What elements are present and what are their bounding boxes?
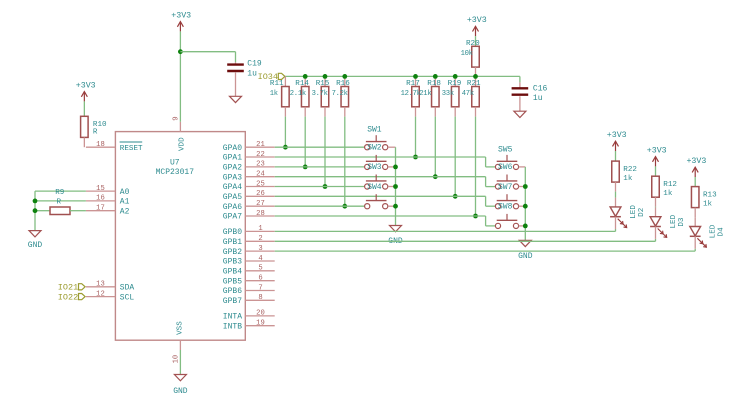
svg-text:28: 28 [256, 210, 265, 218]
svg-text:7: 7 [258, 284, 262, 292]
power +3V3 (VDD) [171, 12, 191, 32]
svg-text:A2: A2 [120, 207, 130, 216]
ground (VSS) [173, 375, 188, 397]
svg-text:25: 25 [256, 180, 265, 188]
wire A0 [35, 190, 86, 192]
svg-text:15: 15 [96, 185, 105, 193]
wire GPB0 row [275, 229, 616, 231]
wire R18 to row [434, 107, 436, 177]
svg-text:33k: 33k [442, 90, 454, 98]
resistor R9 [35, 189, 86, 215]
svg-text:R9: R9 [55, 189, 65, 197]
wire GPA7 row to right switch [275, 216, 496, 226]
svg-text:+3V3: +3V3 [647, 147, 667, 156]
pin 8 GPB7 [223, 294, 275, 306]
svg-text:GPB4: GPB4 [223, 268, 242, 277]
junction A1 [33, 199, 38, 204]
capacitor C19 [227, 59, 262, 96]
svg-text:INTB: INTB [223, 322, 242, 331]
wire GPA4 row [275, 186, 365, 188]
junction row R19 [453, 194, 458, 199]
svg-text:GPB7: GPB7 [223, 297, 242, 306]
junction row R21 [473, 214, 478, 219]
LED D3 [650, 214, 686, 237]
svg-text:RESET: RESET [120, 145, 143, 153]
resistor R18 21k [419, 76, 441, 106]
resistor R13 1k [691, 187, 717, 209]
wire +3V3 to R20 [475, 36, 477, 46]
svg-text:21k: 21k [419, 90, 431, 98]
svg-text:16: 16 [96, 195, 105, 203]
svg-text:GPA1: GPA1 [223, 154, 242, 163]
svg-text:GPA7: GPA7 [223, 213, 242, 222]
wire GPA5 row to right switch [275, 196, 496, 206]
ground (C19) [230, 96, 242, 102]
switch SW6 [495, 163, 525, 189]
svg-text:+3V3: +3V3 [607, 131, 627, 140]
pin 10 VSS [172, 321, 184, 364]
svg-text:24: 24 [256, 171, 265, 179]
svg-text:20: 20 [256, 310, 265, 318]
svg-text:2.1k: 2.1k [290, 90, 306, 98]
svg-text:1k: 1k [623, 175, 633, 183]
LED D4 [690, 224, 726, 247]
svg-text:9: 9 [172, 116, 180, 120]
wire +3V3 to R10 [83, 101, 85, 116]
junction VDD/C19 [178, 49, 183, 54]
svg-text:R: R [57, 198, 62, 206]
svg-text:GPB1: GPB1 [223, 238, 242, 247]
wire right switch outputs [524, 167, 526, 240]
svg-text:13: 13 [96, 281, 105, 289]
junction row R17 [413, 155, 418, 160]
svg-text:1: 1 [258, 225, 262, 233]
pin 9 VDD [172, 116, 186, 151]
switch SW7 [495, 183, 525, 209]
wire R22 to D2 [615, 182, 617, 207]
wire GPB2 row [275, 249, 696, 251]
svg-text:GPA2: GPA2 [223, 164, 242, 173]
wire VDD vertical [179, 31, 181, 121]
LED D2 [610, 205, 646, 228]
svg-text:R12: R12 [663, 181, 677, 189]
pin 21 GPA0 [223, 141, 275, 153]
wire address common vertical [34, 191, 36, 231]
svg-text:12.7k: 12.7k [401, 90, 421, 98]
svg-text:5: 5 [258, 265, 262, 273]
wire R16 to row [344, 107, 346, 206]
wire GPA1 row to right switch [275, 157, 496, 167]
pin 17 A2 [86, 205, 130, 217]
global label IO22 (SCL) [58, 292, 85, 302]
junction SW8 out [523, 224, 528, 229]
wire to C19 [180, 52, 235, 63]
resistor R10 [81, 116, 107, 137]
resistor R16 7.2k [332, 76, 351, 106]
svg-text:D2: D2 [638, 207, 646, 217]
svg-text:10: 10 [172, 355, 180, 364]
svg-text:C16: C16 [533, 84, 548, 93]
pin 3 GPB2 [223, 245, 275, 257]
pin 12 SCL [86, 290, 135, 302]
svg-text:R19: R19 [448, 80, 462, 88]
pin 1 GPB0 [223, 225, 275, 237]
power +3V3 (R20) [467, 16, 487, 36]
switch SW2 [365, 144, 396, 170]
svg-text:SW4: SW4 [367, 183, 382, 192]
switch SW3 [365, 163, 396, 189]
svg-text:A1: A1 [120, 198, 130, 207]
resistor R19 33k [442, 76, 462, 106]
svg-text:26: 26 [256, 190, 265, 198]
svg-text:LED: LED [630, 205, 638, 219]
svg-text:22: 22 [256, 151, 265, 159]
pin 20 INTA [223, 310, 275, 322]
wire R13 to D4 [694, 208, 696, 227]
global label IO34 [258, 72, 285, 82]
svg-text:C19: C19 [247, 59, 262, 68]
svg-text:1u: 1u [247, 69, 257, 78]
wire R14 to row [304, 107, 306, 167]
wire +3V3 to R12 [655, 166, 657, 176]
svg-text:R17: R17 [406, 80, 420, 88]
svg-text:SW3: SW3 [367, 163, 382, 172]
pin 6 GPB5 [223, 275, 275, 287]
svg-text:SW8: SW8 [498, 203, 513, 212]
svg-text:U7: U7 [170, 158, 180, 167]
pin 23 GPA2 [223, 161, 275, 173]
svg-text:GND: GND [28, 241, 43, 250]
wire D3 cathode [655, 227, 657, 239]
switch SW1 [365, 126, 396, 150]
junction bus R17 [413, 74, 418, 79]
svg-text:SW6: SW6 [498, 163, 513, 172]
wire GPA3 row to right switch [275, 177, 496, 187]
svg-text:MCP23017: MCP23017 [156, 168, 195, 177]
svg-text:R20: R20 [466, 40, 480, 48]
junction SW2 out [393, 165, 398, 170]
svg-text:27: 27 [256, 200, 265, 208]
svg-text:+3V3: +3V3 [76, 82, 96, 91]
svg-text:LED: LED [670, 214, 678, 228]
wire R19 to row [454, 107, 456, 197]
junction SW6 out [523, 184, 528, 189]
wire R10 to RESET pin [83, 137, 85, 147]
power +3V3 (R12) [647, 147, 667, 167]
pin 28 GPA7 [223, 210, 275, 222]
svg-text:R13: R13 [703, 192, 717, 200]
wire VSS to ground [179, 350, 181, 375]
ground (C16) [514, 111, 526, 117]
junction bus R14 [303, 74, 308, 79]
wire R15 to row [324, 107, 326, 187]
svg-text:10k: 10k [461, 50, 473, 58]
svg-text:2: 2 [258, 235, 262, 243]
svg-text:GPA5: GPA5 [223, 193, 242, 202]
svg-text:7.2k: 7.2k [332, 90, 348, 98]
pin 24 GPA3 [223, 171, 275, 183]
power +3V3 (R22) [607, 131, 627, 151]
wire R11 to row [284, 107, 286, 147]
pin 22 GPA1 [223, 151, 275, 163]
svg-text:D4: D4 [718, 227, 726, 237]
wire GPA2 row [275, 166, 365, 168]
pin 4 GPB3 [223, 255, 275, 267]
junction bus R15 [323, 74, 328, 79]
svg-text:12: 12 [96, 290, 105, 298]
wire GPB1 row [275, 239, 656, 241]
svg-text:6: 6 [258, 275, 262, 283]
pin 7 GPB6 [223, 284, 275, 296]
svg-text:R15: R15 [316, 80, 330, 88]
svg-text:+3V3: +3V3 [467, 16, 487, 25]
svg-text:GND: GND [173, 387, 188, 396]
ground (left switches) [388, 226, 403, 247]
pin 18 RESET [86, 141, 143, 153]
svg-text:4: 4 [258, 255, 262, 263]
junction bus R19 [453, 74, 458, 79]
svg-text:SW5: SW5 [498, 145, 513, 154]
svg-text:SCL: SCL [120, 293, 135, 302]
wire A1 [35, 200, 86, 202]
wire +3V3 to R13 [694, 177, 696, 187]
wire GPA6 row [275, 205, 365, 207]
svg-text:R: R [93, 128, 98, 136]
wire R21 to row [475, 107, 477, 216]
svg-text:A0: A0 [120, 188, 130, 197]
resistor R14 2.1k [290, 76, 310, 106]
wire resistor bus [285, 75, 520, 77]
svg-text:3.7k: 3.7k [312, 90, 328, 98]
wire R12 to D3 [655, 197, 657, 217]
resistor R21 47k [462, 76, 481, 106]
svg-text:GPB3: GPB3 [223, 258, 242, 267]
power +3V3 (R10) [76, 82, 96, 102]
junction A2 [33, 208, 38, 213]
svg-text:GPA0: GPA0 [223, 144, 242, 153]
ground (right switches) [518, 240, 533, 260]
svg-text:3: 3 [258, 245, 262, 253]
svg-text:INTA: INTA [223, 313, 242, 322]
svg-text:17: 17 [96, 205, 105, 213]
resistor R15 3.7k [312, 76, 330, 106]
svg-text:VDD: VDD [178, 137, 186, 151]
ground (address pins) [28, 231, 43, 251]
switch SW5 [495, 145, 525, 169]
junction row R11 [283, 145, 288, 150]
svg-text:1k: 1k [270, 90, 278, 98]
svg-text:1u: 1u [533, 94, 543, 103]
resistor R20 [461, 40, 481, 67]
svg-text:GPA6: GPA6 [223, 203, 242, 212]
resistor R22 1k [612, 161, 638, 183]
svg-text:23: 23 [256, 161, 265, 169]
junction SW4 out [393, 204, 398, 209]
junction SW7 out [523, 204, 528, 209]
svg-text:SW2: SW2 [367, 144, 382, 153]
svg-text:R16: R16 [336, 80, 350, 88]
svg-text:18: 18 [96, 141, 105, 149]
svg-text:GND: GND [518, 252, 533, 261]
svg-text:GPB0: GPB0 [223, 228, 242, 237]
svg-text:R11: R11 [270, 80, 284, 88]
svg-text:IO22: IO22 [58, 292, 78, 302]
wire GPA0 row [275, 146, 365, 148]
wire D4 cathode [694, 236, 696, 248]
pin 2 GPB1 [223, 235, 275, 247]
pin 19 INTB [223, 320, 275, 332]
svg-text:R22: R22 [623, 166, 637, 174]
junction bus R16 [342, 74, 347, 79]
svg-text:D3: D3 [678, 217, 686, 227]
junction row R16 [342, 204, 347, 209]
pin 26 GPA5 [223, 190, 275, 202]
svg-text:19: 19 [256, 320, 265, 328]
svg-text:SDA: SDA [120, 284, 135, 293]
svg-text:21: 21 [256, 141, 265, 149]
pin 27 GPA6 [223, 200, 275, 212]
svg-text:R14: R14 [295, 80, 309, 88]
capacitor C16 [512, 82, 548, 111]
svg-text:SW1: SW1 [367, 126, 382, 135]
global label IO21 (SDA) [58, 283, 85, 293]
svg-text:1k: 1k [703, 200, 713, 208]
svg-text:R21: R21 [467, 80, 481, 88]
svg-text:47k: 47k [462, 90, 474, 98]
pin 25 GPA4 [223, 180, 275, 192]
pin 5 GPB4 [223, 265, 275, 277]
power +3V3 (R13) [686, 157, 706, 177]
svg-text:R18: R18 [427, 80, 441, 88]
svg-text:+3V3: +3V3 [171, 12, 191, 21]
svg-text:+3V3: +3V3 [686, 157, 706, 166]
wire D2 cathode [615, 217, 617, 229]
pin 13 SDA [86, 281, 135, 293]
svg-text:IO21: IO21 [58, 283, 78, 293]
wire left switch outputs [395, 147, 397, 225]
resistor R11 1k [270, 76, 289, 106]
pin 16 A1 [86, 195, 130, 207]
switch SW8 [495, 203, 525, 229]
wire bus to C16 [519, 76, 521, 82]
svg-text:GPA3: GPA3 [223, 173, 242, 182]
switch SW4 [365, 183, 396, 209]
op-amp U7 MCP23017 IC body [115, 132, 245, 341]
svg-text:LED: LED [710, 224, 718, 238]
pin 15 A0 [86, 185, 130, 197]
wire R17 to row [415, 107, 417, 157]
svg-text:GPB2: GPB2 [223, 248, 242, 257]
resistor R17 12.7k [401, 76, 421, 106]
wire R20 to bus [475, 67, 477, 76]
junction bus R18 [433, 74, 438, 79]
resistor R12 1k [652, 176, 678, 198]
svg-text:1k: 1k [663, 190, 673, 198]
svg-text:VSS: VSS [176, 321, 184, 335]
svg-text:SW7: SW7 [498, 183, 513, 192]
svg-text:8: 8 [258, 294, 262, 302]
svg-text:GPB5: GPB5 [223, 277, 242, 286]
svg-text:GPA4: GPA4 [223, 183, 242, 192]
wire +3V3 to R22 [615, 151, 617, 161]
junction row R15 [323, 184, 328, 189]
junction row R14 [303, 165, 308, 170]
svg-text:GPB6: GPB6 [223, 287, 242, 296]
junction row R18 [433, 174, 438, 179]
junction SW3 out [393, 184, 398, 189]
junction bus R21 [473, 74, 478, 79]
